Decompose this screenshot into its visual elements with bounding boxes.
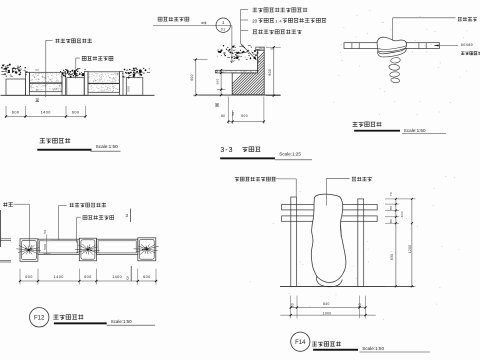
section material labels (right, 3 lines) (253, 8, 308, 13)
leader down from bubble line (231, 26, 233, 64)
planter box right (126, 78, 143, 96)
earth symbol (section) (215, 103, 219, 105)
bench 2 right support (119, 72, 123, 96)
leader: 80X80 steel label (434, 45, 458, 47)
section mark 3 bottom (130, 266, 132, 281)
planter square 3 (138, 238, 156, 261)
svg-text:Scale:1:50: Scale:1:50 (404, 128, 426, 133)
cut edge vertical (0, 210, 2, 247)
svg-text:01: 01 (221, 28, 226, 32)
bench 1 top slab (30, 72, 63, 83)
svg-text:1400: 1400 (112, 275, 122, 279)
svg-text:600: 600 (12, 110, 20, 114)
bench rect 1 (38, 239, 79, 254)
svg-text:1000: 1000 (323, 311, 332, 315)
bench rect 2 (97, 239, 138, 254)
small dims 50/500 at bench1 (46, 235, 48, 255)
post right (358, 199, 364, 287)
plants on left planter (5, 67, 7, 69)
svg-text:20: 20 (252, 19, 257, 24)
svg-text:70: 70 (389, 192, 393, 196)
svg-text:70: 70 (215, 69, 219, 73)
bottom dims 80/500 (227, 97, 229, 124)
plants on right planter (133, 75, 134, 77)
bench 2 top slab (88, 72, 119, 83)
rail upper (282, 205, 378, 210)
label: terrazzo (plan) (83, 215, 114, 219)
bench 1 left support (26, 72, 30, 95)
scatter dots elevation area (250, 177, 459, 320)
svg-text:150: 150 (52, 87, 58, 91)
leader label: light green terrazzo (82, 56, 113, 60)
steel bar (plan) (344, 43, 439, 49)
title: feature elevation F14 (291, 332, 310, 351)
svg-text:Scale:1:50: Scale:1:50 (362, 346, 384, 351)
carved stone blob (plan) (377, 37, 406, 54)
label leader spine (240, 9, 242, 43)
svg-text:50: 50 (117, 72, 121, 76)
svg-text:80: 80 (221, 114, 225, 118)
svg-text:80: 80 (290, 303, 294, 307)
svg-text:80: 80 (358, 303, 362, 307)
bench 1 right support (62, 72, 66, 95)
svg-text:Scale:1:50: Scale:1:50 (96, 144, 119, 149)
dimension chain (plan bottom) (19, 269, 21, 285)
svg-text:500: 500 (241, 114, 248, 118)
svg-text:50: 50 (43, 229, 47, 233)
label leader: carved stone (326, 177, 349, 179)
bench 2 lower slab (88, 84, 119, 93)
svg-text:500: 500 (127, 86, 131, 92)
carved stone (elevation) (311, 194, 346, 282)
planter square 1 (20, 239, 38, 261)
section mark 3 top (129, 209, 131, 223)
cut-off bench row at left edge (0, 238, 11, 240)
svg-text:1:4: 1:4 (275, 19, 282, 24)
svg-text:50: 50 (36, 68, 40, 72)
dimension chain (elevation bottom) (5, 106, 7, 118)
label leader: square steel paint (left) (235, 177, 276, 181)
svg-text:Scale:1:25: Scale:1:25 (279, 151, 301, 156)
plants on middle planter (70, 76, 72, 78)
middle dims 70/300 (216, 69, 227, 71)
svg-text:840: 840 (323, 302, 330, 306)
leader: carved stone label (392, 18, 394, 41)
bottom dims 80/840/80 and 1000 (290, 296, 292, 319)
svg-text:Scale:1:50: Scale:1:50 (111, 319, 132, 324)
rail lower (282, 216, 378, 221)
ground line (bench elevation) (1, 94, 155, 96)
right dims outer (411, 199, 413, 287)
detail bubble circle (216, 18, 230, 32)
svg-text:80: 80 (389, 219, 393, 223)
ground line (feature elevation) (280, 285, 414, 287)
svg-text:80: 80 (389, 206, 393, 210)
title: bench elevation (40, 138, 71, 143)
bar divisions (351, 43, 353, 49)
plants in section flower bed (241, 52, 243, 54)
earth symbol below ground (36, 98, 39, 100)
svg-text:1200: 1200 (408, 245, 412, 254)
reference line to detail bubble (153, 25, 232, 27)
section L-shaped concrete seat wall (hatched) (220, 46, 373, 96)
svg-text:300: 300 (215, 78, 219, 84)
svg-text:830: 830 (390, 254, 394, 261)
coping stone on wall top (256, 47, 264, 50)
stone bottom fold (316, 277, 342, 287)
label: stone (plan) (70, 203, 107, 207)
planter box middle (67, 78, 84, 96)
title: feature plan (352, 122, 381, 127)
svg-text:600: 600 (25, 275, 33, 279)
svg-text:F14: F14 (295, 340, 306, 346)
note: flower bed construction ref (158, 17, 189, 21)
svg-text:3-3: 3-3 (220, 147, 233, 154)
left dim 600 (193, 59, 208, 61)
svg-text:600: 600 (84, 275, 92, 279)
bench 1 lower slab (30, 84, 63, 92)
svg-text:600: 600 (190, 74, 194, 81)
leader label: da hua bai jing mian stone (55, 39, 92, 43)
post left (291, 197, 297, 286)
right dims inner (385, 198, 416, 200)
right dim 800 (266, 46, 281, 48)
diagonal leader w/ arrow into wall (241, 44, 256, 60)
svg-text:80X80: 80X80 (461, 43, 473, 47)
svg-text:F12: F12 (34, 316, 45, 322)
svg-text:500: 500 (43, 243, 47, 249)
svg-text:1400: 1400 (41, 110, 51, 114)
svg-text:400: 400 (400, 211, 404, 217)
svg-text:800: 800 (268, 69, 272, 76)
seat stone slab (stippled) (215, 70, 257, 73)
planter square 2 (79, 238, 96, 261)
svg-text:600: 600 (72, 110, 80, 114)
section ground line (196, 94, 281, 96)
svg-text:600: 600 (143, 275, 151, 279)
svg-text:1400: 1400 (54, 275, 64, 279)
title: bench plan F12 (30, 308, 49, 327)
scatter dots plan area (333, 11, 469, 115)
stepping pebbles (390, 57, 400, 64)
planter box left (6, 79, 26, 95)
bench 2 left support (84, 72, 88, 96)
label: flower bed (3, 202, 13, 206)
svg-text:50: 50 (231, 111, 235, 115)
